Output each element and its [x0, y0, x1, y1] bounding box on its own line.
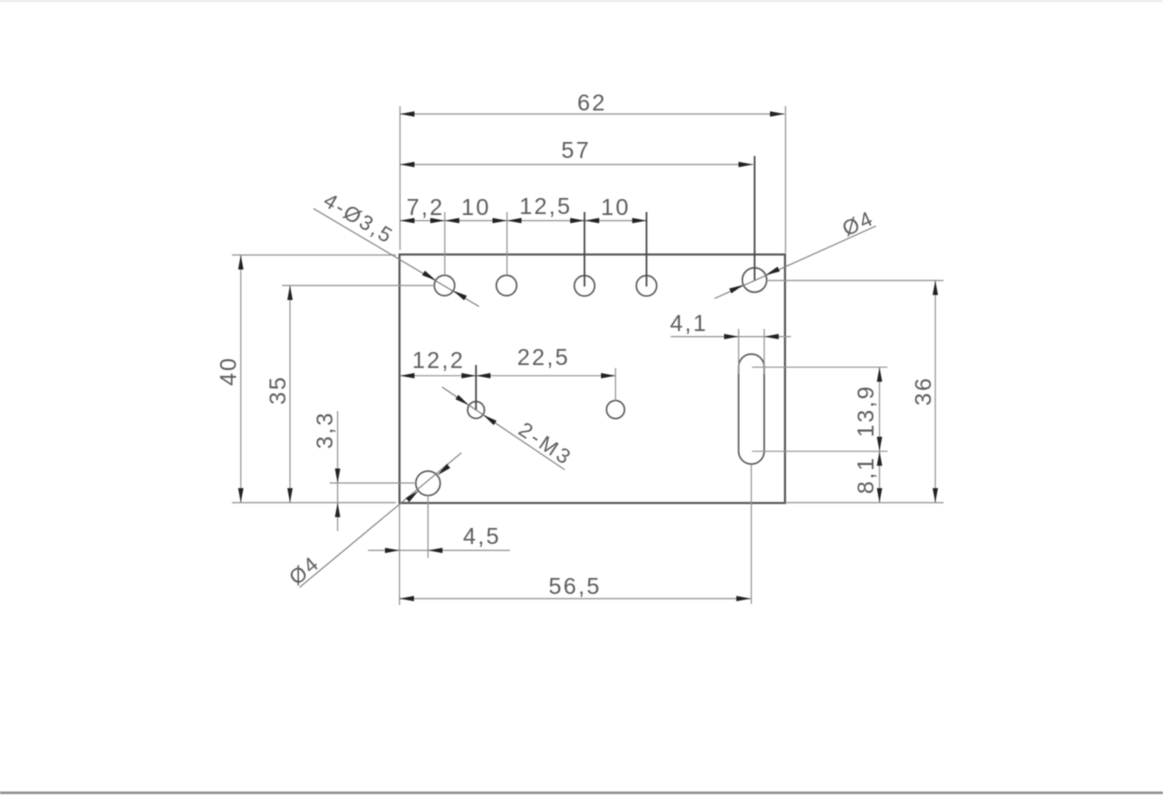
- svg-text:4,5: 4,5: [463, 523, 501, 549]
- svg-text:35: 35: [264, 375, 290, 405]
- svg-text:12,2: 12,2: [412, 347, 465, 373]
- svg-text:10: 10: [601, 194, 631, 220]
- svg-text:56,5: 56,5: [549, 573, 602, 599]
- svg-text:62: 62: [577, 90, 607, 116]
- svg-text:12,5: 12,5: [519, 193, 572, 219]
- svg-text:40: 40: [215, 356, 241, 386]
- svg-text:36: 36: [910, 376, 936, 406]
- svg-text:8,1: 8,1: [852, 456, 878, 494]
- svg-text:7,2: 7,2: [407, 194, 445, 220]
- svg-text:3,3: 3,3: [311, 411, 337, 449]
- svg-text:10: 10: [461, 194, 491, 220]
- svg-text:22,5: 22,5: [517, 344, 570, 370]
- svg-text:57: 57: [561, 137, 591, 163]
- svg-text:4,1: 4,1: [670, 310, 708, 336]
- svg-text:13,9: 13,9: [852, 385, 878, 438]
